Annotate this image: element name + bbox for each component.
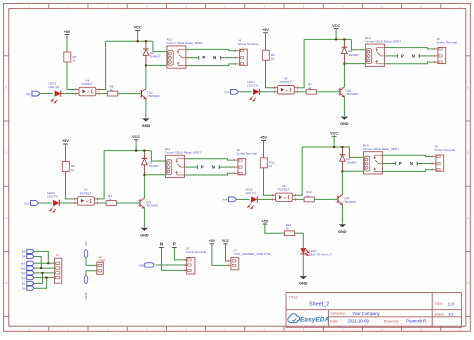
- net flag D6: [22, 249, 34, 253]
- wire: [298, 39, 304, 87]
- svg-text:VCC: VCC: [330, 131, 338, 135]
- junction: [143, 174, 145, 176]
- svg-text:1k: 1k: [110, 88, 114, 92]
- svg-text:rly1: rly1: [21, 262, 26, 266]
- wire: [266, 61, 274, 88]
- wire: [151, 151, 165, 161]
- svg-text:+5V: +5V: [62, 139, 69, 143]
- transistor Q4 BC546C: [336, 195, 358, 205]
- wire: [341, 204, 343, 223]
- wire: [100, 93, 108, 95]
- svg-text:Date:: Date:: [330, 319, 338, 323]
- svg-text:VCC: VCC: [134, 26, 142, 30]
- svg-text:BC546C: BC546C: [149, 94, 161, 98]
- wire: [66, 35, 68, 52]
- svg-text:GND: GND: [299, 281, 308, 286]
- svg-text:1k: 1k: [269, 164, 273, 168]
- LED LED2 LED-TH: [47, 191, 59, 212]
- wire rly1 to J1 pin 1: [34, 262, 54, 264]
- svg-text:Screw Terminal: Screw Terminal: [236, 152, 257, 156]
- svg-text:Sheet:: Sheet:: [435, 313, 445, 317]
- wire: [265, 33, 267, 50]
- screw terminal J8: [185, 247, 207, 275]
- svg-text:+5V: +5V: [262, 28, 269, 32]
- svg-text:GND: GND: [142, 123, 151, 128]
- wire VCC rail: [137, 30, 139, 41]
- connector J7 CON_HEADER_1X02-PTH: [227, 249, 270, 270]
- +5V power flag (rly2 channel): [64, 30, 71, 35]
- VCC power flag: [132, 135, 140, 140]
- ground (LED7): [299, 276, 308, 285]
- wire: [351, 39, 365, 49]
- wire: [226, 244, 228, 261]
- svg-text:LED-TH: LED-TH: [247, 83, 258, 87]
- +5V power flag (rly4 channel): [260, 136, 267, 141]
- wire: [344, 63, 365, 65]
- diode D3 1N4007: [342, 39, 360, 63]
- svg-text:Omron G5LE-Relay_SPDT: Omron G5LE-Relay_SPDT: [365, 39, 401, 43]
- +5V power flag (rly1 channel): [62, 139, 69, 144]
- svg-text:1N4007: 1N4007: [150, 55, 161, 59]
- junction: [46, 277, 48, 279]
- wire: [144, 174, 165, 176]
- svg-text:2021-10-09: 2021-10-09: [347, 319, 369, 324]
- svg-text:BC546C: BC546C: [147, 203, 159, 207]
- svg-text:PCF817: PCF817: [280, 80, 291, 84]
- wire: [98, 202, 106, 204]
- wire: [264, 168, 272, 195]
- wire: [314, 198, 337, 200]
- svg-text:BC546C: BC546C: [347, 92, 359, 96]
- svg-text:Omron G5LE-Relay_SPDT: Omron G5LE-Relay_SPDT: [165, 151, 201, 155]
- screw terminal J3: [233, 148, 257, 175]
- svg-text:1N4007: 1N4007: [346, 160, 357, 164]
- svg-text:Company:: Company:: [330, 312, 346, 316]
- wire: [343, 64, 345, 87]
- svg-text:REV:: REV:: [435, 302, 443, 306]
- net flag D4: [22, 254, 34, 258]
- node P: [199, 55, 206, 60]
- svg-text:LED-TH-3mm_R: LED-TH-3mm_R: [309, 253, 332, 257]
- +5V power flag (J7): [209, 239, 216, 244]
- svg-text:Pramoth R: Pramoth R: [406, 319, 426, 324]
- svg-text:E: E: [467, 85, 469, 89]
- net flag rly2: [21, 266, 34, 270]
- svg-text:C: C: [5, 216, 7, 220]
- screw terminal J4: [235, 39, 259, 66]
- junction: [333, 146, 335, 148]
- net flag rly3: [21, 271, 34, 275]
- wire relay NO to terminal pin 1: [186, 49, 235, 50]
- wire: [155, 264, 185, 266]
- wire: [221, 57, 235, 59]
- wire: [186, 57, 199, 59]
- wire: [419, 55, 433, 57]
- net flag rly4: [21, 276, 34, 280]
- svg-text:VCC: VCC: [332, 24, 340, 28]
- wire VCC rail: [335, 29, 337, 40]
- wire: [145, 65, 147, 88]
- svg-text:CON_HEADER_1X02-PTH: CON_HEADER_1X02-PTH: [234, 252, 271, 256]
- wire: [153, 41, 167, 51]
- svg-text:Screw Terminal: Screw Terminal: [436, 40, 457, 44]
- wire relay NO to terminal pin 1: [184, 159, 233, 160]
- junction: [40, 267, 42, 269]
- svg-text:D6: D6: [22, 250, 26, 254]
- ground: [338, 224, 347, 234]
- +5V net label (J2): [84, 241, 88, 258]
- resistor R5: [62, 160, 75, 173]
- wire VCC rail: [135, 140, 137, 151]
- wire: [86, 271, 97, 276]
- connector J2 PWR: [97, 255, 106, 275]
- wire rly2 to J1 pin 2: [34, 267, 54, 269]
- wire: [343, 97, 345, 116]
- wire: [258, 198, 272, 200]
- wire: [316, 91, 339, 93]
- svg-text:+5V: +5V: [262, 219, 269, 223]
- svg-text:Screw Terminal: Screw Terminal: [434, 148, 455, 152]
- node P: [397, 53, 404, 58]
- optocoupler U6 PCF817: [272, 184, 297, 202]
- wire: [86, 258, 97, 266]
- wire D4 to rly2 net: [34, 257, 41, 269]
- wire: [100, 41, 106, 89]
- svg-text:LED-TH: LED-TH: [49, 85, 60, 89]
- svg-text:D1: D1: [22, 282, 26, 286]
- svg-text:EasyEDA: EasyEDA: [300, 317, 330, 324]
- wire: [67, 63, 75, 90]
- relay RL2 Omron G5LE-Relay_SPDT: [167, 38, 203, 69]
- wire: [174, 247, 185, 260]
- svg-text:+5V: +5V: [209, 239, 216, 243]
- screw terminal J5: [433, 37, 457, 64]
- relay RL3 Omron G5LE-Relay_SPDT: [365, 36, 401, 67]
- wire relay NO to terminal pin 1: [384, 48, 433, 49]
- svg-text:rly4: rly4: [222, 198, 227, 202]
- wire D6 to rly1 net: [34, 251, 48, 263]
- wire: [66, 172, 74, 199]
- wire: [162, 247, 185, 270]
- svg-text:+5V: +5V: [64, 30, 71, 34]
- diode D2 1N4007: [143, 41, 161, 65]
- wire: [341, 171, 343, 194]
- VCC power flag: [330, 131, 338, 136]
- net flag D4: [22, 286, 34, 290]
- svg-text:Sheet_2: Sheet_2: [309, 302, 329, 308]
- wire: [184, 166, 197, 168]
- svg-text:rly2: rly2: [21, 266, 26, 270]
- svg-text:N: N: [160, 241, 163, 246]
- wire: [342, 170, 363, 172]
- ground: [140, 228, 149, 238]
- svg-text:B: B: [467, 281, 469, 285]
- svg-text:+5V: +5V: [84, 241, 88, 246]
- net flag D1: [22, 281, 34, 285]
- svg-text:GND: GND: [140, 232, 149, 237]
- EasyEDA logo: [288, 314, 330, 324]
- svg-text:GND: GND: [84, 291, 88, 299]
- svg-text:1k: 1k: [271, 57, 275, 61]
- wire: [65, 144, 67, 161]
- svg-text:rly1: rly1: [24, 201, 29, 205]
- wire: [237, 198, 250, 200]
- svg-text:1k: 1k: [71, 168, 75, 172]
- node P: [197, 165, 204, 170]
- svg-text:1N4007: 1N4007: [348, 53, 359, 57]
- wire: [295, 233, 304, 248]
- svg-text:B: B: [6, 281, 8, 285]
- wire: [263, 140, 265, 157]
- wire: [146, 64, 167, 66]
- title block: [286, 293, 461, 328]
- resistor R11: [260, 156, 274, 169]
- svg-text:Omron G5LE-Relay_SPDT: Omron G5LE-Relay_SPDT: [363, 147, 399, 151]
- wire: [219, 166, 233, 168]
- svg-text:VCC: VCC: [222, 239, 230, 243]
- net flag rly1: [24, 201, 38, 206]
- node N: [410, 161, 417, 166]
- svg-text:Screw Terminal: Screw Terminal: [186, 250, 207, 254]
- svg-text:Your Company: Your Company: [352, 311, 380, 316]
- wire: [39, 202, 52, 204]
- resistor R4: [106, 194, 116, 206]
- wire rly4 to J1 pin 4: [34, 277, 54, 279]
- svg-text:1k: 1k: [108, 197, 112, 201]
- svg-text:Omron G5LE-Relay_SPDT: Omron G5LE-Relay_SPDT: [167, 41, 203, 45]
- diode D4 1N4007: [340, 147, 358, 171]
- svg-text:+5V: +5V: [260, 136, 267, 140]
- svg-text:P: P: [401, 53, 404, 58]
- svg-text:rly3: rly3: [21, 271, 26, 275]
- resistor R6: [64, 51, 77, 64]
- resistor R7: [306, 83, 316, 95]
- svg-text:J1: J1: [56, 253, 60, 257]
- VCC power flag (J7): [222, 239, 230, 244]
- wire: [145, 98, 147, 117]
- svg-text:BC546C: BC546C: [345, 200, 357, 204]
- svg-text:1N4007: 1N4007: [148, 164, 159, 168]
- svg-text:P: P: [202, 55, 205, 60]
- node N: [212, 165, 219, 170]
- svg-text:C: C: [467, 216, 469, 220]
- svg-text:D4: D4: [22, 255, 26, 259]
- resistor R9: [262, 49, 275, 62]
- svg-text:P: P: [399, 161, 402, 166]
- wire: [296, 147, 302, 195]
- wire: [239, 91, 252, 93]
- net flag rly2: [26, 91, 40, 96]
- screw terminal J6: [431, 144, 455, 171]
- wire: [384, 55, 397, 57]
- wire: [98, 151, 104, 199]
- wire: [143, 208, 145, 227]
- wire: [260, 91, 274, 93]
- svg-text:1k: 1k: [73, 58, 77, 62]
- resistor R8: [108, 84, 118, 96]
- svg-text:N: N: [412, 53, 415, 58]
- wire: [60, 202, 74, 204]
- node P: [395, 161, 402, 166]
- optocoupler U4 PCF817: [75, 78, 100, 96]
- node N: [412, 53, 419, 58]
- node N: [159, 241, 164, 247]
- svg-text:PWR: PWR: [98, 258, 106, 262]
- node P: [172, 241, 177, 247]
- svg-text:rly3: rly3: [224, 90, 229, 94]
- wire: [296, 198, 304, 200]
- svg-text:VCC: VCC: [132, 135, 140, 139]
- svg-text:PCF817: PCF817: [81, 82, 92, 86]
- svg-text:N: N: [213, 55, 216, 60]
- LED LED4 LED-TH: [247, 80, 259, 101]
- VCC power flag: [332, 24, 340, 29]
- wire rly3 to J1 pin 3: [34, 272, 54, 274]
- +5V power flag (rly3 channel): [262, 28, 269, 33]
- optocoupler U5 PCF817: [274, 77, 299, 95]
- wire: [302, 254, 304, 276]
- junction: [137, 40, 139, 42]
- svg-text:GND: GND: [340, 121, 349, 126]
- net flag rly4: [222, 197, 236, 202]
- wire D4 to rly4 net: [34, 278, 46, 289]
- junction: [341, 170, 343, 172]
- svg-text:P: P: [201, 165, 204, 170]
- ground: [340, 117, 349, 127]
- svg-text:PCF817: PCF817: [80, 191, 91, 195]
- junction: [145, 64, 147, 66]
- svg-text:D: D: [467, 151, 469, 155]
- wire D1 to rly3 net: [34, 273, 42, 284]
- ground net label: [139, 263, 154, 268]
- wire: [118, 93, 141, 95]
- LED LED7 LED-TH-3mm_R: [300, 248, 332, 257]
- +5V power flag (LED7): [262, 219, 269, 224]
- wire: [382, 163, 395, 165]
- wire relay NC to terminal pin 3: [384, 62, 433, 64]
- svg-text:N: N: [410, 161, 413, 166]
- relay RL1 Omron G5LE-Relay_SPDT: [165, 147, 201, 178]
- wire: [143, 175, 145, 198]
- junction: [47, 262, 49, 264]
- svg-text:D: D: [5, 151, 7, 155]
- svg-text:1k: 1k: [306, 194, 310, 198]
- resistor R10: [304, 190, 314, 202]
- svg-text:N: N: [212, 165, 215, 170]
- net flag rly3: [224, 89, 238, 94]
- svg-text:P: P: [173, 241, 176, 246]
- svg-text:D4: D4: [22, 286, 26, 290]
- transistor Q1 BC546C: [138, 198, 160, 208]
- svg-text:LED-TH: LED-TH: [47, 195, 58, 199]
- svg-text:E: E: [6, 85, 8, 89]
- wire: [40, 93, 53, 95]
- svg-text:1k: 1k: [308, 86, 312, 90]
- svg-text:Screw Terminal: Screw Terminal: [238, 42, 259, 46]
- wire: [212, 244, 228, 266]
- wire VCC rail: [333, 136, 335, 147]
- diode D1 1N4007: [142, 151, 160, 175]
- ground net label (J2): [84, 276, 88, 299]
- wire: [116, 202, 139, 204]
- svg-text:PCF817: PCF817: [278, 188, 289, 192]
- wire: [417, 163, 431, 165]
- wire relay NC to terminal pin 3: [184, 173, 233, 175]
- wire relay NC to terminal pin 3: [382, 170, 431, 172]
- svg-text:1.0: 1.0: [448, 301, 455, 306]
- svg-text:GND: GND: [338, 229, 347, 234]
- transistor Q2 BC546C: [139, 89, 161, 99]
- svg-text:1k: 1k: [286, 227, 290, 231]
- wire: [265, 224, 284, 233]
- junction: [135, 150, 137, 152]
- net flag rly1: [21, 261, 34, 265]
- junction: [42, 272, 44, 274]
- LED LED6 LED-TH: [245, 187, 257, 208]
- ground: [142, 118, 151, 128]
- wire: [61, 93, 75, 95]
- resistor R12: [284, 223, 294, 236]
- wire relay NC to terminal pin 3: [186, 64, 235, 66]
- LED LED3 LED-TH: [49, 82, 61, 103]
- optocoupler U3 PCF817: [74, 188, 99, 206]
- svg-text:1/1: 1/1: [448, 312, 454, 317]
- junction: [343, 63, 345, 65]
- svg-text:rly2: rly2: [26, 92, 31, 96]
- svg-text:rly4: rly4: [21, 276, 26, 280]
- svg-text:TITLE:: TITLE:: [289, 296, 299, 300]
- wire: [298, 91, 306, 93]
- wire relay NO to terminal pin 1: [382, 155, 431, 156]
- relay RL4 Omron G5LE-Relay_SPDT: [363, 143, 399, 174]
- svg-text:LED-TH: LED-TH: [245, 191, 256, 195]
- VCC power flag: [134, 26, 142, 31]
- svg-text:Drawn By:: Drawn By:: [384, 320, 400, 324]
- connector J1: [54, 253, 61, 283]
- node N: [213, 55, 220, 60]
- wire: [349, 147, 363, 157]
- transistor Q3 BC546C: [338, 87, 360, 97]
- junction: [335, 38, 337, 40]
